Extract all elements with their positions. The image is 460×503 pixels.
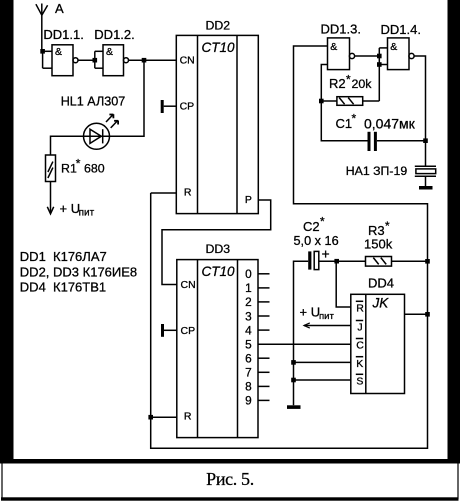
pin DD4 K (inverted) <box>356 357 363 370</box>
gate DD1.1 <box>43 45 78 76</box>
svg-text:DD1.3.: DD1.3. <box>321 22 361 37</box>
svg-text:0: 0 <box>245 267 252 281</box>
svg-text:HL1 АЛ307: HL1 АЛ307 <box>61 95 126 109</box>
svg-text:C2: C2 <box>303 219 320 234</box>
resistor R2 <box>337 97 363 106</box>
wire DD4 R input from C2/R3 junction <box>336 261 351 307</box>
svg-text:0,047мк: 0,047мк <box>364 116 416 132</box>
node: S junction <box>291 378 296 383</box>
wire C1 right to HA1 branch <box>377 140 426 142</box>
svg-text:НА1 ЗП-19: НА1 ЗП-19 <box>346 164 408 178</box>
wire LED to R1 <box>51 136 84 155</box>
svg-text:2: 2 <box>245 295 252 309</box>
node: DD1.2 input junction <box>93 58 98 63</box>
svg-text:6: 6 <box>245 352 252 366</box>
counter DD2 <box>176 35 258 213</box>
svg-text:CT10: CT10 <box>202 40 236 55</box>
svg-text:5,0 x 16: 5,0 x 16 <box>294 234 339 248</box>
svg-text:DD1.4.: DD1.4. <box>381 22 421 37</box>
node: antenna junction <box>40 49 45 54</box>
wire R1 to +U arrow <box>50 182 52 214</box>
svg-text:R: R <box>356 302 364 314</box>
svg-text:R: R <box>184 186 192 198</box>
svg-text:пит: пит <box>319 311 334 322</box>
wire C2 right to R3 <box>319 260 366 262</box>
svg-text:R1: R1 <box>61 162 77 176</box>
svg-text:CN: CN <box>180 54 195 66</box>
sounder HA1 <box>415 166 436 186</box>
wire DD1.3 output to DD1.4 input <box>355 55 380 57</box>
wire R3 right to loop <box>392 260 428 262</box>
svg-text:CN: CN <box>181 279 196 291</box>
svg-text:+ U: + U <box>60 201 81 216</box>
power +Upit arrow (left) <box>47 207 53 214</box>
wire DD4 output to loop <box>405 313 428 315</box>
svg-text:680: 680 <box>84 162 105 176</box>
frame bars (scan border) <box>0 0 14 459</box>
ground (C2/K/S rail) <box>287 405 301 409</box>
parts list text <box>20 249 137 294</box>
svg-text:DD1.2.: DD1.2. <box>94 27 134 42</box>
svg-text:9: 9 <box>245 394 252 408</box>
wire DD1.3 lower input down to R2/C1 <box>321 65 367 141</box>
gate DD1.3 <box>328 38 355 70</box>
node: loop junction with R3 <box>425 259 430 264</box>
wire reset rail left vertical <box>151 46 428 448</box>
node: R rail junction at DD3 R <box>148 415 153 420</box>
node: HA1/C1 junction <box>423 138 428 143</box>
svg-text:20k: 20k <box>352 77 373 91</box>
svg-text:DD1.1.: DD1.1. <box>43 27 83 42</box>
wire DD4 S input to ground rail <box>294 379 351 381</box>
svg-text:*: * <box>352 111 357 125</box>
LED HL1 <box>84 114 119 149</box>
node: DD1.4 input junction <box>377 54 382 59</box>
svg-text:P: P <box>245 194 252 206</box>
pin DD4 S (inverted) <box>356 374 364 387</box>
pin DD3 output stubs <box>258 274 270 401</box>
wire DD1.4 output to HA1 <box>414 56 425 166</box>
wire DD2 R pin <box>151 192 177 194</box>
wire junction down to LED <box>110 60 144 136</box>
svg-text:пит: пит <box>79 207 95 218</box>
svg-text:R2: R2 <box>329 76 346 91</box>
svg-text:*: * <box>76 157 81 171</box>
svg-text:CT10: CT10 <box>202 264 236 279</box>
pin DD3 CP stub with bar terminator <box>161 324 177 337</box>
wire DD3 R pin <box>151 416 177 418</box>
svg-text:&: & <box>55 46 62 58</box>
svg-text:J: J <box>357 322 362 334</box>
svg-text:Рис. 5.: Рис. 5. <box>206 469 254 489</box>
svg-text:DD2, DD3 К176ИЕ8: DD2, DD3 К176ИЕ8 <box>20 264 137 279</box>
pin DD4 J (inverted) <box>356 321 363 334</box>
svg-text:DD1 К176ЛА7: DD1 К176ЛА7 <box>20 249 107 264</box>
svg-text:4: 4 <box>245 323 252 337</box>
wire DD4 K input to ground rail <box>294 361 351 363</box>
svg-text:DD3: DD3 <box>206 242 231 256</box>
wire DD1.4 input vertical to R2 right <box>378 48 380 101</box>
svg-text:5: 5 <box>245 337 252 351</box>
svg-text:C1: C1 <box>336 116 353 131</box>
svg-text:1: 1 <box>245 281 252 295</box>
wire DD3 output 5 to DD4 C input <box>258 343 351 345</box>
svg-text:8: 8 <box>245 380 252 394</box>
svg-text:DD4 К176ТВ1: DD4 К176ТВ1 <box>20 279 106 294</box>
counter DD3 <box>177 260 258 438</box>
svg-text:R: R <box>184 410 192 422</box>
svg-text:+: + <box>322 246 330 262</box>
node: K junction <box>291 360 296 365</box>
svg-text:DD4: DD4 <box>368 276 394 291</box>
gate DD1.4 <box>388 38 415 70</box>
wire DD1.1 output to DD1.2 input <box>78 59 95 61</box>
svg-text:+ U: + U <box>300 305 321 320</box>
resistor R1 <box>46 155 56 182</box>
gate DD1.2 <box>95 45 129 76</box>
node: R2 left junction <box>319 99 324 104</box>
svg-text:&: & <box>390 41 397 53</box>
svg-text:*: * <box>385 219 390 233</box>
svg-text:CP: CP <box>181 325 196 337</box>
ground (HA1) <box>419 186 433 190</box>
power +Upit arrow (DD4 J input) <box>300 305 351 329</box>
wire R2 right <box>363 100 380 102</box>
svg-text:*: * <box>320 215 325 229</box>
node: C2/R3/DD4-R junction <box>334 259 339 264</box>
node: R2 right junction <box>377 62 382 67</box>
svg-text:K: K <box>356 358 363 370</box>
antenna WA1 <box>36 4 48 52</box>
pin labels DD3 outputs 0-9 <box>245 267 252 408</box>
capacitor C2 (polarized) <box>308 246 329 270</box>
svg-text:&: & <box>330 41 337 53</box>
svg-text:DD2: DD2 <box>206 18 231 32</box>
svg-text:C: C <box>356 340 364 352</box>
node: LED branch junction <box>142 58 147 63</box>
pin DD2 CP stub with bar terminator <box>161 100 176 113</box>
svg-text:JK: JK <box>372 296 390 311</box>
trigger DD4 <box>351 294 405 393</box>
resistor R3 <box>366 257 392 267</box>
svg-text:A: A <box>55 1 64 16</box>
wire DD2 P output to DD3 CN <box>162 200 271 285</box>
svg-text:3: 3 <box>245 309 252 323</box>
node: loop junction with DD4 output <box>425 312 430 317</box>
capacitor C1 <box>369 132 375 151</box>
svg-text:*: * <box>346 73 351 87</box>
svg-text:150k: 150k <box>364 237 393 252</box>
svg-text:CP: CP <box>180 100 195 112</box>
svg-text:&: & <box>106 46 113 58</box>
wire R2 left <box>321 100 337 102</box>
wire DD1.2 output to DD2 CN <box>129 59 177 61</box>
pin DD4 R (inverted) <box>356 301 364 314</box>
svg-text:S: S <box>356 375 363 387</box>
svg-text:7: 7 <box>245 366 252 380</box>
pin DD4 C (inverted) <box>356 339 364 352</box>
wire C2 left from ground rail <box>294 261 309 405</box>
